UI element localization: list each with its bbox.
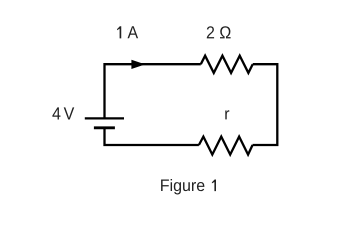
label 1 A (117, 26, 138, 38)
battery B1 positive plate (long) (85, 117, 124, 119)
current arrow (1 A direction) (131, 60, 145, 69)
wire: left vertical + top segment to resistor (105, 64, 201, 118)
wire: top-right segment + right vertical + bottom-right segment (253, 64, 278, 145)
resistor R1 2 ohm (top zigzag) (201, 56, 253, 73)
resistor r (bottom zigzag) (199, 137, 253, 155)
label r (225, 110, 229, 119)
label 4 V (52, 107, 74, 119)
wire: bottom segment + left vertical up to battery minus plate (105, 128, 199, 145)
battery B1 negative plate (short) (94, 126, 115, 129)
label 2 ohm (207, 26, 231, 38)
caption Figure 1 (161, 179, 216, 195)
